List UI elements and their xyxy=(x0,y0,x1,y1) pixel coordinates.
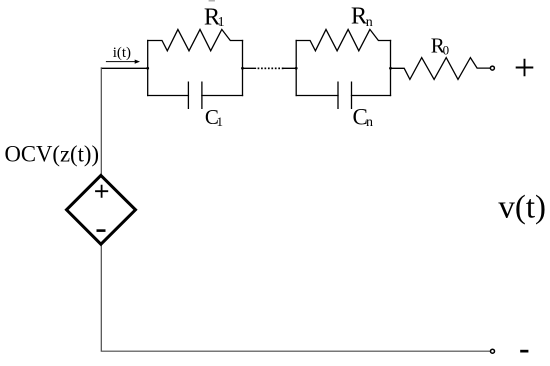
svg-text:n: n xyxy=(366,115,373,130)
svg-text:0: 0 xyxy=(443,42,450,57)
svg-text:i(t): i(t) xyxy=(113,45,131,61)
svg-text:1: 1 xyxy=(218,15,225,30)
svg-text:1: 1 xyxy=(217,114,224,129)
svg-text:OCV(z(t)): OCV(z(t)) xyxy=(5,142,100,167)
svg-text:v(t): v(t) xyxy=(498,189,546,225)
svg-text:n: n xyxy=(366,15,373,30)
